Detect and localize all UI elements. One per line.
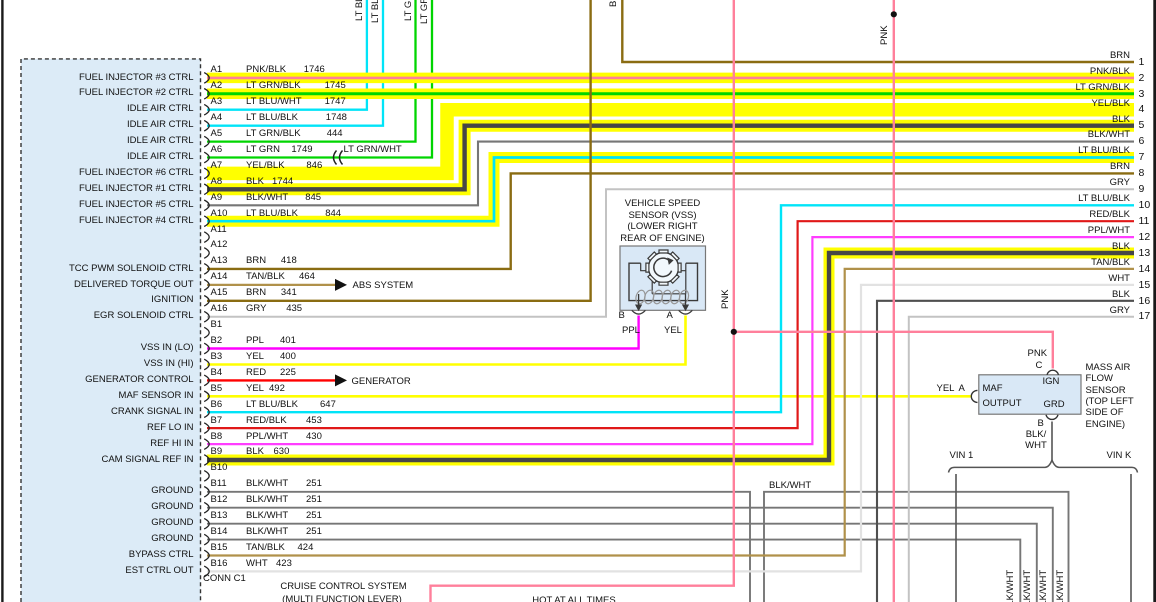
pin B14 labels [0,533,194,545]
pin B10 connector arc [204,471,209,482]
pin A6 labels [0,151,194,163]
VSS reluctor gear [646,250,681,285]
pin B6 connector arc [204,407,209,418]
MAF pin A socket [971,390,977,402]
pin A9 labels [0,199,194,211]
VIN brace [949,460,1138,472]
wire 13 BLK right-edge label [930,241,1130,253]
vertical wire label BLK/WHT [1005,569,1017,602]
wire A4 LT BLU/BLK [207,0,383,126]
wire B8 PPL/WHT [207,237,1134,444]
pin A13 connector arc [204,264,209,275]
splice label LT GRN/WHT [344,144,402,156]
pin B8 connector arc [204,439,209,450]
pin B3 connector arc [204,359,209,370]
pin A3 labels [0,103,194,115]
pin A15 labels [0,294,194,306]
pin A12 connector arc [204,248,209,259]
vertical wire label LT GRN/BLK [403,0,415,21]
vertical wire label BRN [608,0,620,7]
MAF pin B label [1038,418,1044,430]
pin B1 connector arc [204,327,209,338]
wire 7 LT BLU/BLK right-edge label [930,145,1130,157]
highlight A8 circuit [207,126,1134,190]
wire A6 LT GRN [207,0,432,158]
pin A2 connector arc [204,89,209,100]
pin B13 labels [0,517,194,529]
MAF pin A YEL label [937,383,955,395]
pin B9 labels [0,454,194,466]
highlight A1 circuit [207,73,1134,84]
pin B13 connector arc [204,518,209,529]
MAF IGN pin label [1043,376,1060,388]
pin A4 labels [0,119,194,131]
arrow to GENERATOR [335,374,347,386]
pin A14 connector arc [204,280,209,291]
wire PNK branch to MAF IGN [734,332,1053,369]
VSS yoke brackets [629,263,698,300]
VSS pin B label [619,310,625,322]
VSS component label [563,198,763,210]
wire A7 YEL/BLK [207,110,1134,174]
wire 8 BRN right-edge label [930,161,1130,173]
wire 14 TAN/BLK right-edge label [930,257,1130,269]
pin A10 labels [0,215,194,227]
pin B11 labels [0,485,194,497]
label VIN 1 [950,450,974,462]
wire A1 PNK/BLK [207,77,1134,80]
wire A10 LT BLU/BLK [207,158,1134,222]
wire B14 BLK/WHT [207,540,1020,602]
wire 16 BLK [877,301,1134,602]
pin B6 labels [0,406,194,418]
wire B13 BLK/WHT [207,524,1037,602]
vertical wire label PNK [879,25,891,45]
label BLK/WHT bridge [769,480,811,492]
pin A6 connector arc [204,152,209,163]
pin A12 labels [211,239,228,251]
arrow to ABS SYSTEM [335,279,347,291]
wire A3 LT BLU/WHT [207,0,367,110]
VSS pin A label [667,310,673,322]
junction dot PNK/MAF [731,329,737,335]
wire 12 PPL/WHT right-edge label [930,225,1130,237]
wire 11 RED/BLK right-edge label [930,209,1130,221]
pin B12 connector arc [204,502,209,513]
wire B3 YEL [207,316,686,365]
pin A2 labels [0,87,194,99]
wire 16 BLK right-edge label [930,289,1130,301]
wire A15 BRN [207,0,591,301]
pin B12 labels [0,501,194,513]
pin A3 connector arc [204,104,209,115]
wire BLK/WHT bridge [764,492,1069,602]
page right border [1153,0,1156,602]
wire 1 BRN right-edge label [930,50,1130,62]
pin B3 labels [0,358,194,370]
MAF OUTPUT label [983,383,1003,395]
vertical wire label BLK/WHT [1022,569,1034,602]
pin A15 connector arc [204,296,209,307]
vertical wire label BLK/WHT [1038,569,1050,602]
wire 17 GRY [909,317,1134,602]
pin A7 connector arc [204,168,209,179]
pin A13 labels [0,263,194,275]
pin B2 labels [0,342,194,354]
VSS pin B arrow [638,294,640,306]
wire PNK 2 [893,0,895,602]
wire B16 WHT [207,285,1134,572]
pin B15 connector arc [204,550,209,561]
wire 4 YEL/BLK right-edge label [930,98,1130,110]
wire 9 GRY right-edge label [930,177,1130,189]
label ABS SYSTEM [353,280,414,292]
wire B9 BLK [207,253,1134,460]
pin B2 connector arc [204,343,209,354]
wire 17 GRY right-edge label [930,305,1130,317]
pin B8 labels [0,438,194,450]
VSS pickup coil [635,289,690,305]
page left border [1,0,3,602]
wire VIN 1 [955,474,957,602]
wire MAF GRD BLK/WHT [1051,422,1053,461]
pin A9 connector arc [204,200,209,211]
wire B2 PPL [207,316,639,349]
pin B1 labels [211,319,223,331]
wire A9 BLK/WHT [207,142,1134,206]
pin B11 connector arc [204,487,209,498]
vertical wire label PNK [720,289,732,309]
pin A7 labels [0,167,194,179]
wire 5 BLK right-edge label [930,114,1130,126]
wire A2 LT GRN/BLK [207,92,1134,95]
vertical wire label LT BLU/WHT [354,0,366,21]
label CONN C1 [203,573,246,585]
wire 6 BLK/WHT right-edge label [930,129,1130,141]
wire PNK hot-at-all-times net [431,0,734,602]
wire B15 TAN/BLK [207,269,1134,556]
wire 2 PNK/BLK right-edge label [930,66,1130,78]
pin B7 labels [0,422,194,434]
highlight A2 circuit [207,89,1134,100]
vertical wire label LT GRN [419,0,431,24]
pin A5 labels [0,135,194,147]
pin B14 connector arc [204,534,209,545]
MAF pin C socket [1047,370,1059,375]
pin B4 labels [0,374,194,386]
pin B5 connector arc [204,391,209,402]
mass air flow sensor MAF box [979,375,1081,414]
pin A11 labels [211,224,227,236]
MAF pin B socket [1046,415,1058,420]
highlight A10 circuit [207,158,1134,222]
vehicle speed sensor VSS box [620,246,706,310]
label GENERATOR [352,376,411,388]
pin A11 connector arc [204,232,209,243]
pin B5 labels [0,390,194,402]
wire A14 TAN/BLK [207,284,336,286]
pin B7 connector arc [204,423,209,434]
wire B4 RED [207,379,336,381]
label HOT AT ALL TIMES [474,595,674,602]
pin B16 connector arc [204,566,209,577]
MAF pin C PNK label [1028,348,1048,360]
highlight A7 circuit [207,110,1134,174]
wire A13 BRN [207,173,1134,269]
wire B5 YEL [207,395,971,398]
MAF GRD wire BLK/WHT label [1016,429,1056,441]
vertical wire label BLK/WHT [1055,569,1067,602]
highlight B9 circuit [207,253,1134,460]
pin A10 connector arc [204,216,209,227]
wire B11 BLK/WHT [207,492,750,602]
wire 15 WHT right-edge label [930,273,1130,285]
pin A4 connector arc [204,120,209,131]
pin B16 labels [0,565,194,577]
pin A16 labels [0,310,194,322]
wire 1 BRN feed [622,0,1134,62]
wire B7 RED/BLK [207,221,1134,428]
VSS pin A arrow [685,294,687,306]
pin A1 labels [0,72,194,84]
pin B4 connector arc [204,375,209,386]
wire B12 BLK/WHT [207,508,1053,602]
wire 10 LT BLU/BLK right-edge label [930,193,1130,205]
pin A8 labels [0,183,194,195]
PCM connector dashed box [21,59,201,602]
pin B10 labels [211,462,228,474]
label VIN K [1107,450,1132,462]
wire 3 LT GRN/BLK right-edge label [930,82,1130,94]
pin A16 connector arc [204,311,209,322]
wire A8 BLK [207,126,1134,190]
MAF component label [1086,362,1131,374]
wire A5 LT GRN/BLK [207,0,416,142]
wire B6 LT BLU/BLK [207,205,1134,412]
pin A5 connector arc [204,136,209,147]
pin B9 connector arc [204,455,209,466]
pin A14 labels [0,279,194,291]
wire VIN K [1130,474,1132,602]
label CRUISE CONTROL SYSTEM [244,581,444,593]
splice symbol on A6 [334,151,343,165]
pin A1 connector arc [204,73,209,84]
vertical wire label LT BLU/BLK [370,0,382,23]
pin A8 connector arc [204,184,209,195]
wire A16 GRY [207,189,1134,316]
pin B15 labels [0,549,194,561]
junction dot PNK top [891,11,897,17]
